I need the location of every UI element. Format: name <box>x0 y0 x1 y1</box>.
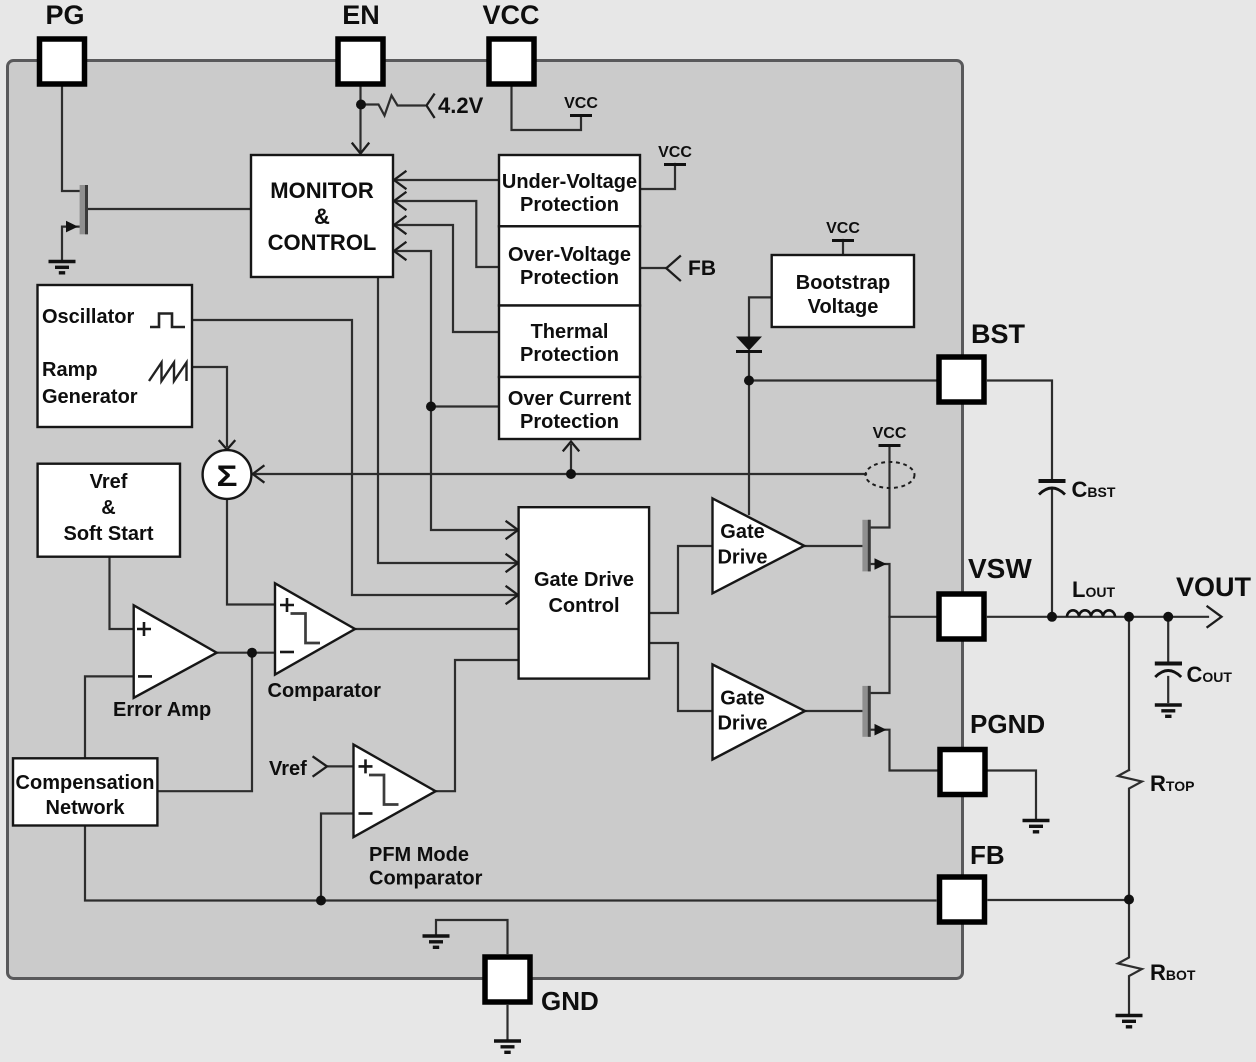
pin PGND <box>940 750 985 795</box>
wire over-current to MONITOR and gate drive control <box>394 251 517 530</box>
gate driver lower <box>713 665 806 760</box>
svg-text:FB: FB <box>970 840 1005 870</box>
svg-text:Protection: Protection <box>520 267 619 289</box>
svg-text:PG: PG <box>45 0 84 30</box>
wire current sense to summing node <box>255 473 866 475</box>
plus error amp <box>137 622 151 636</box>
text Compensation Network <box>16 772 155 819</box>
text Over-Voltage Protection <box>508 244 631 289</box>
arrowhead EN into MONITOR <box>353 144 369 154</box>
svg-text:GND: GND <box>541 986 599 1016</box>
wire over-voltage to MONITOR <box>394 201 499 267</box>
svg-text:Σ: Σ <box>217 460 238 493</box>
svg-text:Voltage: Voltage <box>808 296 879 318</box>
wire RTOP branch <box>1128 617 1130 770</box>
transistor Q3 low-side MOSFET <box>862 686 886 737</box>
arrowhead MONITOR input 4 <box>394 243 406 260</box>
text Oscillator Ramp Generator <box>42 306 138 408</box>
resistor RTOP <box>1118 770 1142 900</box>
block Over-Voltage Protection <box>499 226 640 305</box>
text MONITOR & CONTROL <box>268 178 377 255</box>
svg-text:EN: EN <box>342 0 380 30</box>
text Gate Drive Control <box>534 569 634 617</box>
wire FB input to OVP <box>641 267 667 269</box>
block Oscillator Ramp Generator <box>38 285 193 427</box>
svg-text:VCC: VCC <box>873 425 907 442</box>
svg-text:Generator: Generator <box>42 386 138 408</box>
svg-text:FB: FB <box>688 257 716 280</box>
svg-text:Comparator: Comparator <box>369 868 483 890</box>
block Gate Drive Control <box>519 507 650 678</box>
wire MONITOR to gate drive control <box>378 278 517 564</box>
minus comparator <box>280 651 294 654</box>
svg-text:Drive: Drive <box>717 547 767 569</box>
svg-text:VCC: VCC <box>826 220 860 237</box>
wire Q1 gate to MONITOR <box>89 208 252 210</box>
wire comparator output to gate drive control <box>355 628 519 630</box>
junction VSW CBST <box>1047 612 1057 622</box>
wire error amp inverting input <box>85 676 133 758</box>
transistor Q2 high-side MOSFET <box>862 520 886 572</box>
pin PG <box>40 39 85 84</box>
ground PGND <box>1023 821 1050 832</box>
arrowhead VOUT <box>1208 607 1222 628</box>
wire BST to CBST <box>988 381 1052 480</box>
svg-text:Thermal: Thermal <box>531 321 609 343</box>
wire UVP to VCC rail <box>641 164 676 189</box>
svg-text:MONITOR: MONITOR <box>270 178 374 203</box>
wire PGND to ground <box>989 771 1037 819</box>
junction bootstrap diode <box>744 376 754 386</box>
arrowhead MONITOR input 3 <box>394 217 406 234</box>
comparator PFM Mode <box>354 745 436 838</box>
svg-text:Protection: Protection <box>520 194 619 216</box>
wire FB to PFM comparator <box>321 814 353 901</box>
wire Q2 source to VSW node <box>871 564 890 617</box>
wire VCC pin to VCC rail <box>512 87 582 131</box>
capacitor CBST <box>1039 481 1066 495</box>
svg-text:VCC: VCC <box>658 144 692 161</box>
wire PFM comparator output <box>436 660 518 791</box>
wire upper driver to Q2 gate <box>805 545 862 547</box>
plus PFM comparator <box>359 759 373 773</box>
wire vref soft-start to error amp <box>110 557 134 629</box>
comparator <box>275 583 355 674</box>
svg-text:PGND: PGND <box>970 709 1045 739</box>
wire thermal to MONITOR <box>394 225 499 332</box>
svg-text:&: & <box>314 204 330 229</box>
wire COUT branch <box>1167 617 1169 702</box>
diode bootstrap <box>736 337 762 352</box>
junction error amp output <box>247 648 257 658</box>
icon ramp sawtooth <box>149 363 187 382</box>
svg-text:VCC: VCC <box>564 95 598 112</box>
arrowhead Vref input <box>314 757 328 776</box>
icon comparator hysteresis <box>291 614 321 644</box>
op-amp Error Amp <box>134 605 217 698</box>
wire bootstrap to diode and BST <box>749 297 936 514</box>
pin VCC <box>489 39 534 84</box>
svg-text:Over Current: Over Current <box>508 388 632 410</box>
svg-text:Oscillator: Oscillator <box>42 306 134 328</box>
svg-text:Gate: Gate <box>720 688 764 710</box>
junction LOUT RTOP <box>1124 612 1134 622</box>
capacitor COUT <box>1155 664 1182 678</box>
svg-text:&: & <box>101 497 115 519</box>
icon PFM hysteresis <box>369 775 399 805</box>
wire VSW node <box>871 617 936 693</box>
svg-text:VSW: VSW <box>968 553 1032 584</box>
resistor RBOT <box>1118 900 1142 1014</box>
junction over-current input <box>426 402 436 412</box>
wire VCC to Q2 drain <box>871 446 890 528</box>
block MONITOR & CONTROL <box>251 155 393 277</box>
svg-text:CONTROL: CONTROL <box>268 230 377 255</box>
svg-text:Vref: Vref <box>90 471 128 493</box>
block Vref & Soft Start <box>38 464 180 557</box>
minus PFM comparator <box>359 812 373 815</box>
text Vref & Soft Start <box>64 471 154 545</box>
junction EN/4.2V <box>356 100 366 110</box>
wire Vref to PFM comparator <box>327 765 353 767</box>
svg-text:Bootstrap: Bootstrap <box>796 272 890 294</box>
svg-text:Control: Control <box>548 595 619 617</box>
wire PG pin to Q1 drain <box>62 87 80 192</box>
arrowhead 4.2V <box>427 95 435 118</box>
svg-text:Protection: Protection <box>520 411 619 433</box>
inductor LOUT <box>1067 610 1115 616</box>
text Bootstrap Voltage <box>796 272 890 318</box>
wire compensation network to FB <box>85 826 936 901</box>
arrowhead into over-current protection <box>564 442 579 451</box>
pin GND <box>485 957 530 1002</box>
wire gate drive control to lower driver <box>650 643 712 711</box>
wire CBST to VSW <box>1051 490 1053 617</box>
wire summing node to comparator <box>227 498 275 605</box>
VCC rail UVP <box>658 144 692 165</box>
wire under-voltage to MONITOR <box>394 179 499 181</box>
svg-text:Protection: Protection <box>520 344 619 366</box>
text gate driver upper <box>717 521 767 569</box>
block Compensation Network <box>13 758 157 825</box>
wire Q1 source to ground <box>62 227 80 260</box>
wire EN to MONITOR <box>359 87 361 153</box>
minus error amp <box>138 675 152 678</box>
svg-text:Comparator: Comparator <box>268 680 382 702</box>
arrowhead FB input <box>666 256 680 280</box>
pin EN <box>338 39 383 84</box>
svg-text:BST: BST <box>971 319 1026 349</box>
arrowhead MONITOR input 1 <box>394 172 406 189</box>
text Over Current Protection <box>508 388 632 433</box>
text gate driver lower <box>717 688 767 735</box>
svg-text:4.2V: 4.2V <box>438 93 484 118</box>
icon oscillator pulse <box>150 314 185 328</box>
wire GND pin to internal ground <box>436 920 508 953</box>
arrowhead GDC input 3 <box>507 587 519 604</box>
svg-text:Ramp: Ramp <box>42 359 98 381</box>
summing node <box>203 450 252 499</box>
resistor 4.2V threshold squiggle <box>361 96 425 116</box>
text Thermal Protection <box>520 321 619 366</box>
ground RBOT <box>1116 1016 1143 1027</box>
block Bootstrap Voltage <box>772 255 914 327</box>
wire GND pin to external ground <box>506 1006 508 1039</box>
wire FB external <box>989 899 1130 901</box>
ground internal GND <box>423 936 450 947</box>
svg-text:Compensation: Compensation <box>16 772 155 794</box>
svg-text:Over-Voltage: Over-Voltage <box>508 244 631 266</box>
VCC rail near VCC pin <box>564 95 598 116</box>
VCC rail bootstrap <box>826 220 860 241</box>
wire bootstrap VCC rail <box>842 240 844 255</box>
wire gate drive control to upper driver <box>650 546 712 613</box>
pin VSW <box>939 594 984 639</box>
svg-text:Vref: Vref <box>269 758 307 780</box>
ground below GND pin <box>494 1041 521 1052</box>
plus comparator <box>280 598 294 612</box>
arrowhead sense into summing node <box>253 466 264 482</box>
arrowhead GDC input 1 <box>507 522 519 539</box>
arrowhead GDC input 2 <box>507 555 519 572</box>
wire VSW to VOUT <box>988 616 1208 618</box>
block Over Current Protection <box>499 377 640 439</box>
arrowhead ramp into summing node <box>220 441 235 450</box>
ground Q1 <box>49 262 76 273</box>
ground COUT <box>1155 705 1182 716</box>
block Thermal Protection <box>499 306 640 378</box>
svg-text:VOUT: VOUT <box>1176 572 1252 602</box>
wire ramp to summing node <box>192 367 227 446</box>
junction current-sense sum <box>566 469 576 479</box>
pin FB <box>940 877 985 922</box>
wire lower driver to Q3 gate <box>805 710 862 712</box>
gate driver upper <box>713 498 805 593</box>
text Under-Voltage Protection <box>502 171 637 216</box>
svg-text:Gate: Gate <box>720 521 764 543</box>
svg-text:Drive: Drive <box>717 713 767 735</box>
wire oscillator clock to gate drive control <box>192 320 517 595</box>
block Under-Voltage Protection <box>499 155 640 226</box>
transistor Q1 PG open-drain <box>66 185 88 234</box>
junction FB PFM <box>316 896 326 906</box>
wire Q3 source to PGND <box>871 730 937 771</box>
svg-text:VCC: VCC <box>482 0 539 30</box>
svg-text:Soft Start: Soft Start <box>64 523 154 545</box>
current sense ellipse <box>866 462 915 488</box>
svg-text:Error Amp: Error Amp <box>113 699 211 721</box>
junction VOUT COUT <box>1163 612 1173 622</box>
wire over-current sense branch <box>570 445 572 474</box>
arrowhead MONITOR input 2 <box>394 193 406 210</box>
pin BST <box>939 357 984 402</box>
svg-text:Gate Drive: Gate Drive <box>534 569 634 591</box>
IC body <box>8 61 963 979</box>
VCC rail Q2 drain <box>873 425 907 446</box>
svg-text:Under-Voltage: Under-Voltage <box>502 171 637 193</box>
junction FB divider <box>1124 895 1134 905</box>
wire error amp output <box>158 653 275 792</box>
svg-text:PFM Mode: PFM Mode <box>369 844 469 866</box>
svg-text:Network: Network <box>46 797 126 819</box>
